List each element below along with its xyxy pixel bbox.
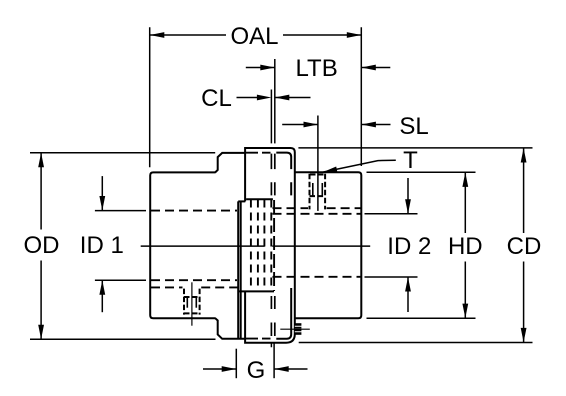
G extension left <box>235 349 237 379</box>
T leader arrow <box>323 167 338 173</box>
OD dimension line <box>40 153 42 339</box>
HD dimension line <box>464 173 466 318</box>
svg-text:ID 1: ID 1 <box>80 232 124 259</box>
ID2 extension top <box>365 213 418 215</box>
OAL dimension line <box>150 34 361 36</box>
svg-text:CL: CL <box>201 85 232 112</box>
LTB dimension arrows lines <box>246 67 390 69</box>
tooth 3 <box>263 200 265 290</box>
tooth 2 <box>257 200 259 290</box>
svg-text:HD: HD <box>448 233 483 260</box>
tooth 1 <box>250 200 252 290</box>
OD extension bottom <box>30 338 216 340</box>
CL dimension arrow lines <box>237 97 311 99</box>
G extension right <box>273 343 275 379</box>
LTB right arrow <box>361 65 376 71</box>
svg-text:OD: OD <box>24 232 60 259</box>
ID2 arrow line top <box>407 178 409 214</box>
ID1 arrow line bottom <box>101 281 103 313</box>
ID2 top arrow <box>405 199 411 214</box>
collar (sleeve cover) outline <box>245 148 295 343</box>
keyway ID1 hidden line <box>151 286 238 288</box>
retaining screw nub <box>295 323 302 335</box>
set screw S2 (right hub, top) hidden outline <box>310 174 326 210</box>
centerline leader ID1 <box>141 245 265 247</box>
set screw S2 socket <box>313 183 323 197</box>
ID1 extension top <box>95 210 146 212</box>
ID2 extension bottom <box>365 276 418 278</box>
HD bottom arrow <box>462 304 468 319</box>
bore ID2 bottom hidden line <box>273 276 362 278</box>
centerline leader ID2 <box>272 245 370 247</box>
OD extension top <box>30 152 215 154</box>
set screw S1 centerline <box>191 282 193 325</box>
set screw S1 (left hub, bottom) hidden outline <box>184 289 200 315</box>
OAL extension line right <box>360 27 362 166</box>
ID1 top arrow <box>99 196 105 211</box>
CD extension bottom <box>299 342 533 344</box>
hidden gap pair segments under collar <box>271 154 274 336</box>
G dimension arrow lines <box>203 368 308 370</box>
T leader line <box>324 160 396 172</box>
G right arrow <box>274 366 289 372</box>
CD bottom arrow <box>521 328 527 343</box>
ID2 bottom arrow <box>405 277 411 292</box>
OD bottom arrow <box>38 325 44 340</box>
bore ID1 top hidden line <box>151 210 237 212</box>
hub face double line a <box>237 201 239 338</box>
CD extension top <box>298 147 532 149</box>
right flange F2 bottom <box>276 288 291 339</box>
ID1 bottom arrow <box>99 280 105 295</box>
flange bottom hidden under collar <box>246 338 271 340</box>
collar left lip step top <box>238 200 245 202</box>
bore ID1 bottom hidden line <box>151 279 237 281</box>
OAL right arrow <box>347 32 362 38</box>
svg-text:ID 2: ID 2 <box>387 233 431 260</box>
right hub L2 outline <box>295 172 361 318</box>
CL gap line left <box>270 90 272 348</box>
bore ID2 keyway hidden line <box>273 207 362 209</box>
OAL left arrow <box>150 32 165 38</box>
svg-text:SL: SL <box>399 113 428 140</box>
retaining screw nub grooves <box>295 326 302 332</box>
left flange F1 left face with chamfers <box>215 153 245 173</box>
OAL extension line left <box>149 27 151 167</box>
CL left arrow <box>257 95 272 101</box>
flange top hidden under collar <box>246 152 271 154</box>
svg-text:G: G <box>247 357 266 384</box>
hidden hub-face gap line <box>273 200 275 291</box>
svg-text:OAL: OAL <box>230 23 278 50</box>
tooth 4 <box>270 200 272 290</box>
svg-text:T: T <box>403 147 418 174</box>
CD top arrow <box>521 148 527 163</box>
HD top arrow <box>462 172 468 187</box>
svg-text:LTB: LTB <box>295 55 337 82</box>
ID2 arrow line bottom <box>407 277 409 312</box>
left flange F1 lower left face <box>215 318 245 339</box>
SL extension / screw centerline <box>317 116 319 211</box>
CL gap line right / LTB left extension <box>274 59 276 143</box>
hub face double line b <box>240 201 242 338</box>
teeth top line <box>246 198 273 200</box>
set screw S1 socket <box>187 296 196 308</box>
svg-text:CD: CD <box>507 233 542 260</box>
left hub L1 outline <box>150 172 215 318</box>
collar left lip step bottom <box>238 290 274 292</box>
HD extension bottom (with hub bottom) <box>367 317 476 319</box>
right flange F2 top <box>276 153 291 196</box>
ID1 arrow line top <box>101 176 103 210</box>
ID1 extension bottom <box>95 279 146 281</box>
OD top arrow <box>38 153 44 168</box>
SL right arrow <box>361 122 376 128</box>
G left arrow <box>222 366 237 372</box>
SL dimension arrow lines <box>282 124 390 126</box>
retaining screw centerline <box>280 328 310 330</box>
bore ID2 top hidden line <box>273 213 362 215</box>
CL right arrow <box>275 95 290 101</box>
SL left arrow <box>304 122 319 128</box>
HD extension top <box>367 171 476 173</box>
CD dimension line <box>523 148 525 342</box>
LTB left arrow <box>260 65 275 71</box>
